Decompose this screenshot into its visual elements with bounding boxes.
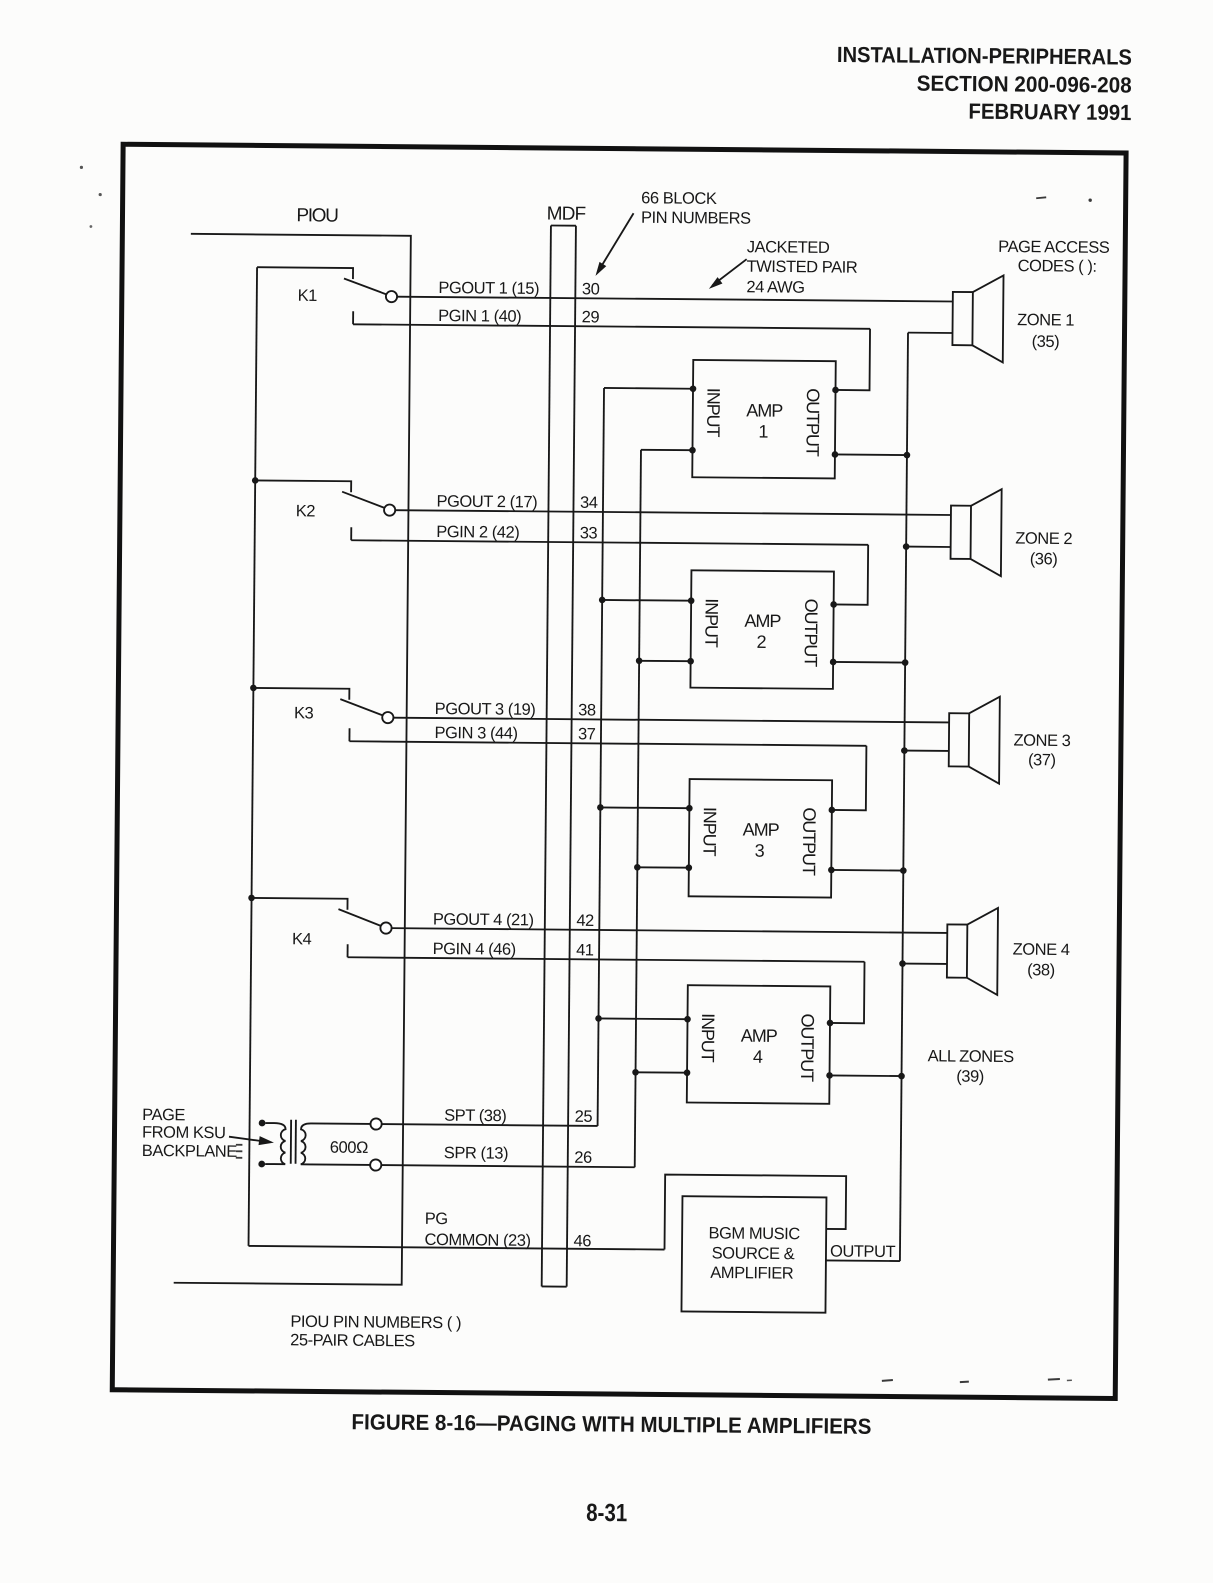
relay K2 blade	[342, 492, 385, 508]
relay K3 contact circle	[382, 712, 393, 723]
arrow ksu-backplane to transformer	[229, 1137, 261, 1141]
pin AMP 3 output-	[828, 867, 835, 874]
svg-text:AMP: AMP	[741, 1026, 778, 1046]
wire PGIN 3 stub	[348, 728, 350, 741]
wire PIOU common left bus	[249, 267, 258, 1246]
pin AMP 3 input-	[686, 864, 693, 871]
pin AMP 1 input+	[690, 385, 697, 392]
svg-text:24 AWG: 24 AWG	[746, 278, 804, 297]
svg-text:K4: K4	[292, 930, 312, 948]
pin AMP 4 input-	[684, 1069, 691, 1076]
arrow twisted-pair to wire	[712, 259, 746, 286]
junction return bus amp 4	[898, 1073, 905, 1080]
wire SPT line	[382, 1124, 598, 1126]
pin AMP 1 input-	[689, 447, 696, 454]
svg-text:(36): (36)	[1030, 550, 1058, 568]
svg-text:PGIN 2 (42): PGIN 2 (42)	[436, 523, 519, 542]
wire PGIN 1 stub	[352, 311, 354, 324]
svg-text:INPUT: INPUT	[698, 1013, 718, 1063]
svg-text:PIN NUMBERS: PIN NUMBERS	[641, 209, 751, 228]
svg-text:SPR (13): SPR (13)	[444, 1144, 508, 1163]
svg-text:K1: K1	[298, 287, 318, 305]
svg-text:41: 41	[576, 941, 594, 959]
wire PGIN 2 stub	[350, 527, 352, 540]
svg-text:AMP: AMP	[743, 819, 780, 839]
wire PGOUT 1 line	[397, 297, 953, 302]
svg-text:INPUT: INPUT	[703, 388, 723, 438]
svg-text:37: 37	[578, 725, 596, 743]
pin AMP 2 input-	[687, 658, 694, 665]
speaker ZONE 3	[949, 713, 969, 766]
wire AMP 3 input+ from riser A	[600, 806, 689, 809]
svg-text:PIOU PIN NUMBERS ( ): PIOU PIN NUMBERS ( )	[290, 1313, 461, 1332]
svg-text:INPUT: INPUT	[701, 598, 721, 648]
relay K2 contact circle	[384, 504, 395, 515]
BGM music source & amplifier box	[681, 1196, 826, 1313]
svg-text:MDF: MDF	[547, 203, 586, 224]
pin AMP 1 output-	[832, 451, 839, 458]
svg-text:PGIN 4 (46): PGIN 4 (46)	[433, 940, 516, 959]
wire AMP 1 output+ to PGIN	[836, 328, 871, 390]
transformer T1 core	[290, 1120, 292, 1164]
wire BGM output to return bus	[826, 1259, 900, 1262]
speaker ZONE 1	[952, 292, 972, 345]
pin AMP 3 output+	[829, 807, 836, 814]
op-amp box AMP 4	[687, 985, 831, 1104]
svg-text:PAGE ACCESS: PAGE ACCESS	[998, 238, 1110, 257]
pin AMP 1 output+	[832, 387, 839, 394]
svg-text:FROM KSU: FROM KSU	[142, 1123, 226, 1142]
svg-text:25: 25	[575, 1108, 593, 1126]
wire AMP 2 input+ from riser A	[602, 599, 691, 602]
svg-text:PGOUT 2 (17): PGOUT 2 (17)	[436, 493, 537, 512]
svg-text:FEBRUARY 1991: FEBRUARY 1991	[968, 99, 1131, 125]
op-amp box AMP 2	[690, 570, 834, 689]
pin AMP 4 input+	[684, 1016, 691, 1023]
svg-text:42: 42	[576, 912, 594, 930]
svg-text:(35): (35)	[1032, 333, 1060, 351]
svg-text:AMP: AMP	[744, 611, 781, 631]
speaker ZONE 2	[951, 506, 971, 559]
relay K4 blade	[338, 909, 381, 926]
wire AMP 2 input- from riser B	[639, 660, 690, 662]
svg-text:8-31: 8-31	[586, 1499, 627, 1527]
svg-text:CODES ( ):: CODES ( ):	[1018, 257, 1097, 276]
svg-text:2: 2	[756, 632, 766, 652]
junction return bus amp 1	[904, 452, 911, 459]
svg-text:4: 4	[753, 1047, 763, 1067]
wire AMP 4 input+ from riser A	[599, 1017, 688, 1020]
relay K2 armature wire	[255, 480, 351, 492]
PIOU card outline	[174, 234, 411, 1285]
svg-text:ZONE 2: ZONE 2	[1015, 530, 1072, 548]
transformer T1 primary winding	[265, 1123, 285, 1164]
svg-text:PGIN 3 (44): PGIN 3 (44)	[434, 724, 517, 743]
svg-text:SOURCE &: SOURCE &	[712, 1244, 795, 1263]
wire PGIN 4 stub	[347, 944, 349, 957]
op-amp box AMP 3	[689, 779, 833, 898]
junction bus-K4	[248, 895, 255, 902]
svg-text:K2: K2	[296, 502, 316, 520]
svg-text:34: 34	[580, 494, 598, 512]
svg-text:ALL ZONES: ALL ZONES	[928, 1047, 1015, 1066]
svg-text:PGOUT 4 (21): PGOUT 4 (21)	[433, 910, 534, 929]
svg-text:26: 26	[574, 1149, 592, 1167]
svg-text:38: 38	[578, 701, 596, 719]
wire PG common to BGM input (over the top)	[665, 1175, 847, 1252]
svg-text:PGIN 1 (40): PGIN 1 (40)	[438, 307, 521, 326]
relay K4 contact circle	[380, 922, 391, 933]
junction riser A amp 3	[597, 804, 604, 811]
junction return bus amp 3	[900, 867, 907, 874]
figure border frame	[112, 144, 1126, 1398]
wire amp input riser B (SPR feed)	[635, 450, 641, 1167]
svg-text:33: 33	[580, 524, 598, 542]
wire zone 3 speaker return	[904, 750, 948, 752]
pin AMP 2 output-	[830, 659, 837, 666]
svg-text:1: 1	[758, 422, 768, 442]
wire AMP 4 output- to return bus	[830, 1074, 902, 1077]
wire zone 2 speaker return	[906, 546, 950, 548]
junction riser B amp 4	[632, 1069, 639, 1076]
junction riser A amp 2	[599, 597, 606, 604]
transformer T1 primary terminal dots	[259, 1120, 266, 1127]
svg-text:PIOU: PIOU	[296, 205, 338, 226]
svg-text:JACKETED: JACKETED	[747, 238, 830, 257]
wire PGOUT 4 line	[392, 928, 948, 933]
wire zone 1 speaker return	[908, 332, 952, 334]
svg-text:(39): (39)	[956, 1068, 984, 1086]
junction bus-K2	[252, 477, 259, 484]
svg-text:SECTION 200-096-208: SECTION 200-096-208	[917, 71, 1132, 98]
relay K4 armature wire	[251, 898, 347, 910]
pin AMP 3 input+	[686, 805, 693, 812]
svg-text:ZONE 4: ZONE 4	[1013, 941, 1070, 959]
arrow 66-block to MDF	[599, 213, 634, 271]
svg-text:AMPLIFIER: AMPLIFIER	[710, 1264, 794, 1283]
pin AMP 4 output+	[827, 1020, 834, 1027]
svg-text:ZONE 3: ZONE 3	[1013, 732, 1070, 750]
wire AMP 1 input+ from riser A	[604, 387, 693, 390]
svg-text:OUTPUT: OUTPUT	[797, 1013, 818, 1082]
svg-text:25-PAIR CABLES: 25-PAIR CABLES	[290, 1331, 415, 1350]
svg-text:PG: PG	[425, 1210, 448, 1228]
op-amp box AMP 1	[692, 360, 836, 479]
wire AMP 1 input- from riser B	[641, 449, 692, 451]
svg-text:ZONE 1: ZONE 1	[1017, 311, 1074, 329]
transformer SPT terminal circle	[370, 1118, 381, 1129]
junction riser A amp 4	[595, 1015, 602, 1022]
svg-text:66 BLOCK: 66 BLOCK	[641, 189, 717, 208]
svg-text:AMP: AMP	[746, 400, 783, 420]
wire zone 4 speaker return	[903, 963, 947, 965]
wire AMP 1 output- to return bus	[835, 453, 907, 456]
junction return bus zone 2	[903, 543, 910, 550]
wire amp input riser A (SPT feed)	[598, 388, 604, 1126]
wire PG COMMON line	[249, 1246, 665, 1250]
junction riser B amp 2	[636, 657, 643, 664]
wire PGOUT 2 line	[395, 510, 951, 515]
relay K3 blade	[340, 699, 383, 715]
pin AMP 4 output-	[826, 1072, 833, 1079]
wire AMP 4 output+ to PGIN	[830, 961, 865, 1023]
junction return bus zone 3	[901, 747, 908, 754]
svg-text:PGOUT 3 (19): PGOUT 3 (19)	[435, 700, 536, 719]
svg-text:600Ω: 600Ω	[330, 1139, 368, 1157]
svg-text:OUTPUT: OUTPUT	[830, 1242, 896, 1261]
svg-text:30: 30	[582, 280, 600, 298]
svg-text:(37): (37)	[1028, 751, 1056, 769]
scan artifacts	[1036, 197, 1046, 198]
svg-text:PGOUT 1 (15): PGOUT 1 (15)	[438, 279, 539, 298]
speaker ZONE 4	[947, 924, 967, 977]
svg-text:INPUT: INPUT	[699, 807, 719, 857]
wire AMP 2 output+ to PGIN	[834, 544, 869, 604]
junction return bus zone 4	[899, 960, 906, 967]
svg-text:29: 29	[582, 308, 600, 326]
wire speaker return bus (all zones)	[900, 333, 908, 1261]
wire SPR line	[381, 1165, 634, 1167]
wire AMP 3 output- to return bus	[831, 869, 903, 872]
transformer T1 secondary winding	[301, 1123, 371, 1165]
wire AMP 4 input- from riser B	[636, 1071, 687, 1073]
wire AMP 2 output- to return bus	[833, 661, 905, 664]
relay K3 armature wire	[253, 688, 349, 700]
svg-text:PAGE: PAGE	[142, 1106, 185, 1124]
svg-text:FIGURE 8-16—PAGING WITH MULTIP: FIGURE 8-16—PAGING WITH MULTIPLE AMPLIFI…	[351, 1409, 871, 1439]
pin AMP 2 input+	[688, 597, 695, 604]
junction return bus amp 2	[902, 659, 909, 666]
svg-text:46: 46	[573, 1232, 591, 1250]
wire PGOUT 3 line	[393, 718, 949, 723]
relay K1 armature wire	[257, 267, 353, 279]
svg-text:3: 3	[755, 841, 765, 861]
svg-text:OUTPUT: OUTPUT	[801, 599, 822, 668]
wire AMP 3 output+ to PGIN	[832, 745, 867, 810]
svg-text:K3: K3	[294, 704, 314, 722]
junction riser B amp 3	[634, 864, 641, 871]
svg-text:INSTALLATION-PERIPHERALS: INSTALLATION-PERIPHERALS	[837, 42, 1132, 70]
svg-text:TWISTED PAIR: TWISTED PAIR	[747, 258, 858, 277]
wire PGIN 4 line	[348, 957, 865, 962]
wire AMP 3 input- from riser B	[637, 866, 688, 868]
wire PGIN 2 line	[351, 540, 868, 545]
wire PGIN 3 line	[349, 741, 866, 746]
pin AMP 2 output+	[830, 601, 837, 608]
relay K1 contact circle	[386, 291, 397, 302]
svg-text:(38): (38)	[1027, 961, 1055, 979]
svg-text:BACKPLANE: BACKPLANE	[142, 1142, 238, 1161]
wire PGIN 1 line	[353, 324, 870, 329]
svg-text:BGM MUSIC: BGM MUSIC	[708, 1224, 800, 1243]
relay K1 blade	[344, 278, 387, 294]
svg-text:OUTPUT: OUTPUT	[799, 807, 820, 876]
MDF 66-block column	[551, 224, 576, 226]
transformer SPR terminal circle	[370, 1159, 381, 1170]
svg-text:OUTPUT: OUTPUT	[802, 388, 823, 457]
junction bus-K3	[250, 685, 257, 692]
svg-text:SPT (38): SPT (38)	[444, 1107, 506, 1126]
